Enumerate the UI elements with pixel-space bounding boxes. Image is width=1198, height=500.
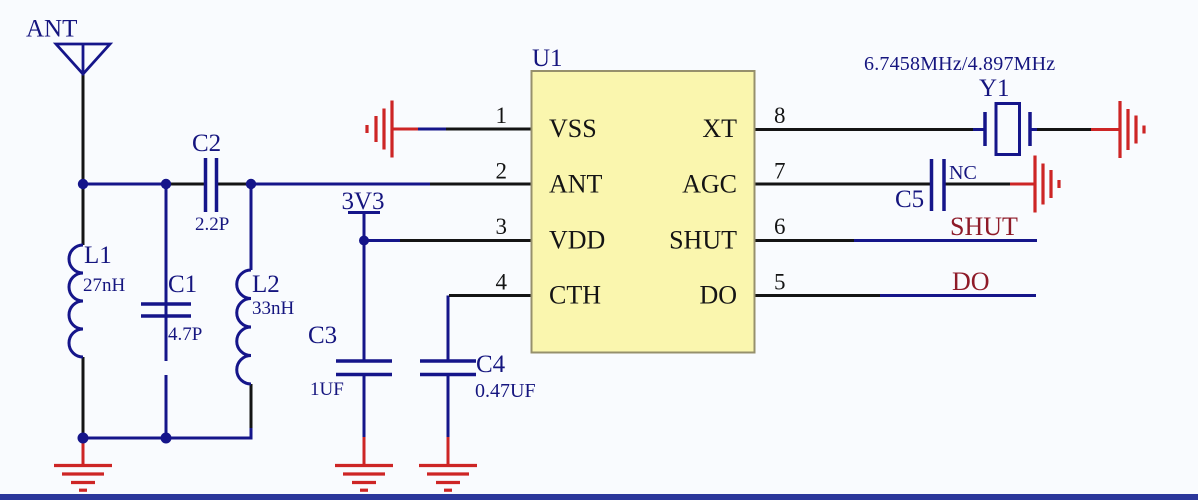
svg-text:C3: C3 [308,322,337,349]
svg-text:3V3: 3V3 [341,188,384,215]
svg-text:C2: C2 [192,130,221,157]
svg-text:ANT: ANT [549,170,603,199]
svg-text:L2: L2 [252,271,280,298]
svg-text:ANT: ANT [26,16,77,43]
svg-text:C4: C4 [476,351,506,378]
svg-text:2.2P: 2.2P [195,214,229,235]
svg-text:6.7458MHz/4.897MHz: 6.7458MHz/4.897MHz [864,53,1055,75]
svg-text:SHUT: SHUT [669,226,737,255]
svg-text:1: 1 [496,103,508,128]
svg-text:0.47UF: 0.47UF [475,380,536,402]
svg-text:5: 5 [774,270,786,295]
svg-text:L1: L1 [84,242,112,269]
svg-text:AGC: AGC [682,170,737,199]
svg-text:3: 3 [496,214,508,239]
svg-text:DO: DO [699,281,737,310]
svg-text:27nH: 27nH [83,275,126,296]
svg-text:SHUT: SHUT [950,212,1018,241]
svg-text:7: 7 [774,159,786,184]
svg-text:VSS: VSS [549,114,597,143]
svg-text:4.7P: 4.7P [168,324,202,345]
svg-text:8: 8 [774,103,786,128]
svg-text:4: 4 [496,270,508,295]
svg-text:CTH: CTH [549,281,601,310]
svg-text:XT: XT [702,114,737,143]
svg-text:33nH: 33nH [252,298,295,319]
svg-text:C5: C5 [895,186,924,213]
svg-text:C1: C1 [168,271,197,298]
svg-text:2: 2 [496,159,508,184]
svg-text:6: 6 [774,214,786,239]
svg-text:NC: NC [949,162,977,184]
svg-text:1UF: 1UF [310,379,344,400]
svg-text:Y1: Y1 [979,75,1010,102]
svg-text:U1: U1 [532,45,563,72]
svg-text:DO: DO [952,267,990,296]
svg-text:VDD: VDD [549,226,605,255]
